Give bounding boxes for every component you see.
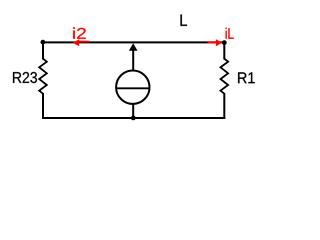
current source direction arrowhead: [129, 43, 138, 50]
current source I1 (circle with bar): [116, 71, 149, 104]
current arrow iL (points right): [208, 39, 223, 46]
wire (bottom horizontal): [42, 117, 225, 119]
label R1: [238, 72, 255, 83]
resistor R23: [39, 59, 47, 94]
wire (top horizontal, net L): [43, 41, 224, 43]
current source bar: [115, 87, 150, 89]
wire (left branch top segment): [42, 41, 44, 59]
wire (current source bottom stem): [132, 104, 134, 118]
wire (current source top stem): [132, 48, 134, 71]
net label L: [181, 15, 188, 26]
label R23: [13, 72, 37, 83]
wire (right branch bottom segment): [223, 93, 225, 119]
node (top right junction): [222, 40, 227, 45]
resistor R1: [221, 59, 229, 94]
node (top left junction): [41, 40, 46, 45]
label i2: [73, 27, 86, 38]
wire (left branch bottom segment): [42, 93, 44, 119]
label iL: [226, 28, 234, 39]
node (bottom junction): [131, 116, 136, 121]
wire (right branch top segment): [223, 41, 225, 59]
current arrow i2 (points left): [73, 39, 90, 46]
